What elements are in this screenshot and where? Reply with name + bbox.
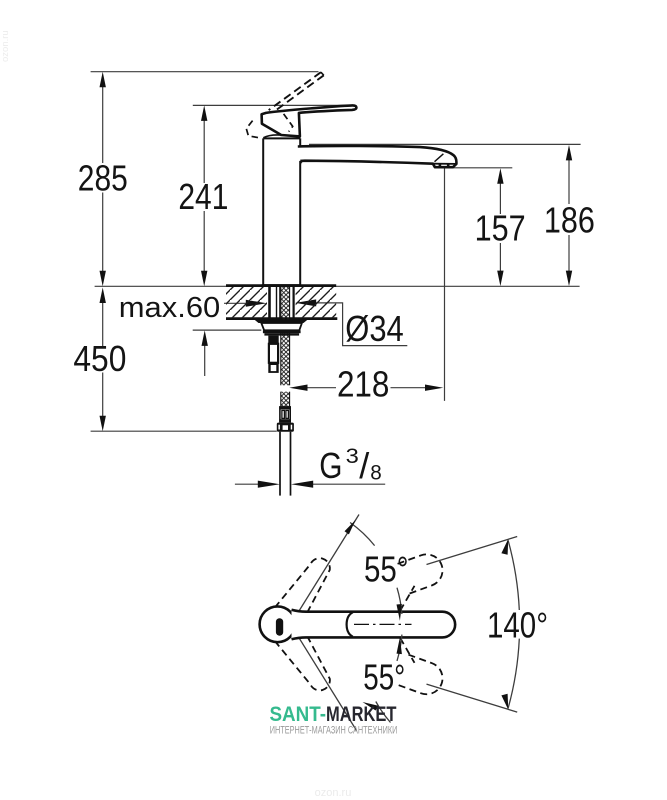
55-deg dim arc lower segment a + arrow to spout	[397, 635, 402, 661]
hidden lever inside handle body (dashed)	[284, 114, 293, 132]
mounting nut band 2	[264, 333, 299, 335]
extension line under mounting nut (max.60 ref)	[193, 329, 262, 331]
svg-text:157: 157	[475, 208, 526, 249]
hole diameter arrow left (points right)	[246, 300, 267, 307]
nut side mark left	[278, 425, 280, 430]
body column left edge	[262, 138, 264, 285]
threaded stud foot	[268, 363, 278, 373]
svg-text:Ø34: Ø34	[345, 308, 404, 349]
leader to label Ø34	[316, 303, 407, 346]
spout extreme position upper (dashed tip)	[398, 550, 447, 594]
svg-text:/: /	[359, 445, 369, 486]
aerator notch right	[447, 164, 450, 167]
spout extreme position lower (dashed tip)	[398, 655, 447, 699]
dimension 186 line	[568, 159, 570, 204]
svg-text:ozon.ru: ozon.ru	[0, 30, 11, 62]
countertop hatched band bottom edge	[226, 317, 337, 320]
svg-text:ozon.ru: ozon.ru	[315, 787, 352, 799]
svg-text:max.60: max.60	[119, 292, 221, 324]
spout extreme lower root flare (dashed)	[400, 638, 414, 663]
hose connection nut	[277, 423, 294, 432]
fillet spout/body	[300, 161, 305, 165]
55-deg dim arc lower segment b	[376, 702, 391, 723]
dimension 285 line	[102, 85, 104, 163]
aerator top line	[433, 163, 457, 165]
svg-text:ИНТЕРНЕТ-МАГАЗИН САНТЕХНИКИ: ИНТЕРНЕТ-МАГАЗИН САНТЕХНИКИ	[270, 725, 398, 737]
extension line (241 ref, handle top)	[193, 104, 352, 106]
swivel extreme line lower (140 ref)	[427, 684, 518, 712]
shank right wall	[293, 287, 295, 320]
55-degree boundary line lower	[294, 630, 357, 731]
140-deg dim arc lower	[508, 639, 519, 709]
spout tube (top view)	[292, 610, 456, 640]
svg-text:241: 241	[178, 176, 228, 217]
svg-text:8: 8	[370, 462, 382, 485]
shank left inner wall	[276, 287, 278, 320]
shank left outer wall	[268, 287, 271, 320]
dashed lever tip cap	[321, 72, 324, 75]
dimension max.60 lower arrow	[204, 344, 206, 376]
countertop hatching left of faucet	[226, 287, 267, 317]
spout tip accent line	[435, 154, 444, 162]
dimension 157 line	[499, 182, 501, 214]
G3/8 connection pipe right wall	[290, 432, 292, 496]
stabilizing plate	[261, 323, 302, 330]
stud foot slot	[271, 365, 277, 371]
svg-text:3: 3	[346, 445, 359, 468]
countertop hatched band top edge	[226, 284, 336, 287]
aerator notch left	[439, 164, 442, 167]
G3/8 connection pipe left wall	[279, 432, 281, 496]
140-deg arc arrowhead upper	[501, 539, 508, 555]
svg-text:186: 186	[544, 199, 595, 240]
ferrule bottom band	[279, 419, 291, 422]
flexible hose braided section lower	[281, 392, 290, 407]
dimension 218 line	[306, 387, 337, 389]
svg-text:G: G	[319, 445, 342, 486]
handle extreme position upper (dashed lobe)	[268, 558, 330, 619]
mounting nut band 1	[263, 330, 301, 333]
ferrule slot left	[282, 410, 285, 418]
mounting washer	[254, 320, 307, 323]
handle mark inside circle	[276, 618, 283, 636]
arrowhead at upper 55-deg line	[345, 520, 356, 535]
svg-text:55°: 55°	[363, 656, 405, 697]
svg-text:450: 450	[73, 338, 126, 379]
svg-text:285: 285	[78, 158, 128, 199]
arrowhead at lower 55-deg line	[363, 702, 379, 711]
handle lever + body outline	[262, 105, 357, 136]
svg-text:218: 218	[337, 363, 390, 404]
threaded stud middle	[269, 344, 278, 363]
countertop hatching right of faucet	[296, 287, 337, 317]
55-degree boundary line upper	[294, 515, 359, 620]
extension line (spout top 186 ref)	[309, 143, 581, 145]
flexible hose braided section upper	[281, 287, 290, 386]
faucet body circle (top view)	[260, 606, 296, 642]
countertop line	[95, 285, 580, 287]
140-deg arc arrowhead lower	[501, 694, 508, 710]
hose crimp ferrule	[280, 407, 290, 422]
svg-text:55°: 55°	[364, 549, 409, 590]
hole diameter arrow right (points left)	[295, 299, 316, 306]
body column right edge lower	[299, 161, 301, 286]
swivel extreme line upper (140 ref)	[427, 537, 518, 565]
spout outline	[298, 146, 457, 167]
spout tube inner end cap	[347, 612, 353, 636]
nut side mark right	[291, 425, 293, 430]
extension line top (spout max height 285 ref)	[91, 71, 319, 73]
extension line from spout outlet down (218 ref)	[444, 169, 446, 401]
body base on countertop	[262, 284, 301, 287]
dimension 241 line	[203, 119, 205, 183]
handle extreme position lower (dashed lobe)	[268, 629, 330, 690]
svg-text:MARKET: MARKET	[326, 703, 397, 726]
neck joint line	[263, 137, 300, 139]
body dome arc under handle	[263, 135, 281, 138]
extension line (spout outlet 157 ref)	[437, 167, 512, 169]
ferrule top band	[279, 407, 291, 410]
55-deg dim arc upper segment b + arrow to spout	[397, 588, 402, 614]
body column right edge upper	[299, 138, 301, 146]
supply tube left	[279, 287, 281, 320]
handle swing silhouette (dashed, lower left)	[246, 121, 258, 138]
svg-text:SANT-: SANT-	[270, 703, 327, 726]
spout centerline (dash-dot)	[354, 623, 412, 625]
max.60 leader line	[224, 302, 247, 304]
spout extreme upper root flare (dashed)	[400, 586, 414, 611]
svg-text:140°: 140°	[487, 604, 548, 645]
55-deg dim arc upper segment a	[350, 523, 375, 546]
dimension 450 line	[102, 302, 104, 347]
threaded stud top	[268, 336, 278, 344]
ferrule slot right	[286, 410, 289, 418]
nut flat highlight	[283, 425, 288, 430]
extension line hose end (450 ref)	[91, 430, 277, 432]
handle raised position (dashed lever)	[269, 72, 324, 113]
dimension G3/8 line	[235, 483, 259, 485]
140-deg dim arc upper	[508, 540, 519, 610]
